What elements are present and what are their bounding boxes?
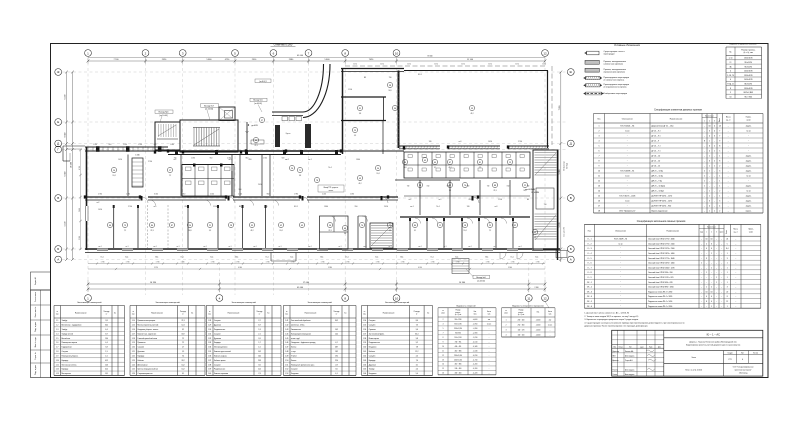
svg-text:1.45: 1.45 <box>285 338 288 340</box>
svg-text:ВК: ВК <box>527 199 529 201</box>
svg-text:–: – <box>716 296 717 298</box>
elevator shaft above stair <box>219 107 235 121</box>
svg-text:5 840: 5 840 <box>324 59 330 61</box>
svg-text:–1,530: –1,530 <box>473 350 478 352</box>
svg-text:5: 5 <box>727 243 728 245</box>
svg-text:–: – <box>701 267 702 269</box>
svg-text:41,2: 41,2 <box>448 167 451 169</box>
svg-text:из керамического кирпича: из керамического кирпича <box>604 87 628 89</box>
svg-text:ОК – 4: ОК – 4 <box>587 296 592 298</box>
svg-text:1: 1 <box>727 277 728 279</box>
svg-text:Е: Е <box>57 120 59 124</box>
svg-text:1.39: 1.39 <box>208 369 211 371</box>
svg-text:1: 1 <box>727 263 728 265</box>
svg-text:Оконный блок ОП В2 1870 × 140: Оконный блок ОП В2 1870 × 1400 <box>648 252 675 255</box>
svg-text:1.32: 1.32 <box>208 338 211 340</box>
svg-text:Ведомость отверстий в перек: Ведомость отверстий в перекрытии <box>512 304 543 307</box>
svg-text:–: – <box>721 272 722 274</box>
svg-text:Кабинет: Кабинет <box>138 360 145 362</box>
svg-text:Ворота подъемные: Ворота подъемные <box>652 211 668 213</box>
svg-text:4: 4 <box>709 151 710 153</box>
svg-text:+3,000: +3,000 <box>536 324 541 326</box>
svg-text:Изм: Изм <box>613 346 616 348</box>
bottom dimension lines <box>88 283 545 285</box>
svg-text:4: 4 <box>599 141 600 143</box>
svg-text:Корректировка проектно-сметной: Корректировка проектно-сметной документа… <box>686 344 741 347</box>
svg-text:–: – <box>721 296 722 298</box>
svg-text:1.22: 1.22 <box>132 355 135 357</box>
grid bubbles left <box>55 69 62 76</box>
svg-text:–: – <box>714 186 715 188</box>
svg-text:ап 1: ап 1 <box>444 246 447 248</box>
svg-text:1.35: 1.35 <box>208 351 211 353</box>
svg-text:3,0: 3,0 <box>335 369 337 371</box>
svg-text:1.10: 1.10 <box>56 360 59 362</box>
svg-text:1 200: 1 200 <box>238 194 242 196</box>
svg-text:14: 14 <box>719 126 721 128</box>
svg-text:Взам. инв. №: Взам. инв. № <box>34 307 37 318</box>
svg-text:4: 4 <box>730 71 731 73</box>
svg-text:Лист: Лист <box>741 353 745 355</box>
svg-text:Б-1: Б-1 <box>536 257 539 259</box>
svg-text:1.42: 1.42 <box>285 325 288 327</box>
svg-text:1 770: 1 770 <box>211 262 215 264</box>
svg-text:810: 810 <box>427 186 430 188</box>
svg-text:1.36: 1.36 <box>208 355 211 357</box>
svg-text:1. Данный лист читать совместн: 1. Данный лист читать совместно с АС – 1… <box>584 312 629 315</box>
svg-text:–: – <box>735 243 736 245</box>
legend rows <box>587 51 600 55</box>
svg-text:2 060: 2 060 <box>227 157 231 159</box>
svg-text:Санузел: Санузел <box>369 355 376 357</box>
svg-text:1 840: 1 840 <box>324 206 328 208</box>
svg-text:3,8: 3,8 <box>534 237 536 239</box>
svg-text:Комната для занятий: Комната для занятий <box>214 350 231 353</box>
svg-text:3,6: 3,6 <box>258 364 260 366</box>
svg-text:8 540: 8 540 <box>65 133 67 138</box>
svg-text:1.40: 1.40 <box>208 373 211 375</box>
svg-text:4: 4 <box>714 126 715 128</box>
left attachment stamp <box>31 290 51 378</box>
svg-text:Оконный блок ОП В2 690 × 870: Оконный блок ОП В2 690 × 870 <box>648 281 673 284</box>
svg-text:–: – <box>704 126 705 128</box>
svg-text:1.28: 1.28 <box>208 320 211 322</box>
svg-text:1: 1 <box>714 151 715 153</box>
svg-text:9,6: 9,6 <box>416 329 418 331</box>
svg-text:+1,710: +1,710 <box>473 359 478 361</box>
svg-text:Ведомость отверстий: Ведомость отверстий <box>457 304 476 307</box>
svg-text:ДГ 21 – 7 п: ДГ 21 – 7 п <box>652 151 661 153</box>
svg-text:1010×2070: 1010×2070 <box>744 78 753 81</box>
svg-text:1: 1 <box>727 272 728 274</box>
svg-text:Размер проема,: Размер проема, <box>741 49 756 51</box>
svg-text:ап 1: ап 1 <box>389 246 392 248</box>
vestibule west wall <box>246 122 248 151</box>
svg-text:3: 3 <box>706 258 707 260</box>
svg-text:1 490: 1 490 <box>126 194 130 196</box>
svg-text:нов: нов <box>488 319 491 321</box>
svg-text:1: 1 <box>706 287 707 289</box>
svg-text:1.8: 1.8 <box>56 351 58 353</box>
svg-text:2,6: 2,6 <box>258 338 260 340</box>
svg-text:отопл.: отопл. <box>329 190 334 192</box>
svg-text:5 200: 5 200 <box>79 236 81 240</box>
svg-text:–: – <box>704 196 705 198</box>
svg-text:10: 10 <box>442 346 444 348</box>
svg-text:Б-1: Б-1 <box>126 257 129 259</box>
svg-text:+3,000: +3,000 <box>536 334 541 336</box>
svg-text:закупк.: закупк. <box>746 166 752 168</box>
svg-text:7,2: 7,2 <box>489 230 491 232</box>
svg-text:1: 1 <box>719 196 720 198</box>
svg-text:2: 2 <box>714 161 715 163</box>
svg-text:17: 17 <box>598 206 600 208</box>
svg-text:–: – <box>728 171 729 173</box>
svg-text:–: – <box>716 248 717 250</box>
svg-text:В-1: В-1 <box>236 257 239 259</box>
svg-text:–: – <box>701 282 702 284</box>
svg-text:–: – <box>716 301 717 303</box>
svg-text:1: 1 <box>727 282 728 284</box>
svg-text:Ю – 1 – АС: Ю – 1 – АС <box>707 332 721 336</box>
svg-text:1 770: 1 770 <box>291 262 295 264</box>
svg-text:Площадь: Площадь <box>256 311 262 313</box>
svg-text:1.56: 1.56 <box>363 329 366 331</box>
svg-text:Холлы: Холлы <box>291 360 297 362</box>
svg-text:–: – <box>706 267 707 269</box>
svg-text:–: – <box>728 191 729 193</box>
svg-text:–: – <box>701 296 702 298</box>
svg-text:–: – <box>701 258 702 260</box>
svg-text:7 ПД, 11: 7 ПД, 11 <box>727 84 734 86</box>
svg-text:8,6: 8,6 <box>416 320 418 322</box>
svg-text:4: 4 <box>706 296 707 298</box>
svg-text:1.19: 1.19 <box>132 342 135 344</box>
svg-text:1 770: 1 770 <box>401 262 405 264</box>
SE stairwell column <box>533 150 558 250</box>
svg-text:Приемная: Приемная <box>138 342 146 344</box>
svg-text:18,2: 18,2 <box>335 351 338 353</box>
svg-text:11: 11 <box>598 176 600 178</box>
svg-text:О-1: О-1 <box>265 257 268 259</box>
svg-text:ОК – 5: ОК – 5 <box>587 301 592 303</box>
svg-text:Лаборатория помещения: Лаборатория помещения <box>291 333 311 335</box>
svg-text:41,2: 41,2 <box>105 369 108 371</box>
svg-text:–: – <box>721 263 722 265</box>
svg-text:ДГ 24 – 15: ДГ 24 – 15 <box>652 166 661 168</box>
svg-text:Подп. и дата: Подп. и дата <box>35 322 37 332</box>
svg-text:1.12: 1.12 <box>56 369 59 371</box>
svg-text:6 200: 6 200 <box>65 95 67 100</box>
svg-text:19,2: 19,2 <box>335 355 338 357</box>
svg-text:1 770: 1 770 <box>431 262 435 264</box>
vestibule north walls <box>272 111 303 113</box>
svg-text:Кабинет: Кабинет <box>369 351 376 353</box>
svg-text:–: – <box>735 287 736 289</box>
svg-text:15,3: 15,3 <box>105 364 108 366</box>
svg-text:–: – <box>735 248 736 250</box>
svg-text:810: 810 <box>185 206 188 208</box>
svg-text:закупк.: закупк. <box>746 196 752 198</box>
svg-text:ДН 21 – 9 Щ: ДН 21 – 9 Щ <box>652 181 663 183</box>
svg-text:1.14: 1.14 <box>132 320 135 322</box>
svg-text:Душевая: Душевая <box>369 364 376 366</box>
svg-text:1.47: 1.47 <box>285 347 288 349</box>
svg-text:Экспликация помещений: Экспликация помещений <box>77 301 102 304</box>
svg-text:9: 9 <box>730 92 731 94</box>
svg-text:О – 1: О – 1 <box>587 239 591 241</box>
svg-text:30,2: 30,2 <box>335 320 338 322</box>
svg-text:1.13: 1.13 <box>56 373 59 375</box>
svg-text:Подоконная плита ПК 4 × 2090: Подоконная плита ПК 4 × 2090 <box>648 290 672 293</box>
svg-text:–: – <box>701 291 702 293</box>
partitions north band west wing <box>127 155 129 197</box>
svg-text:Сушилка: Сушилка <box>369 329 376 331</box>
svg-text:3: 3 <box>714 136 715 138</box>
svg-text:–: – <box>706 263 707 265</box>
svg-text:–: – <box>704 166 705 168</box>
svg-text:ДН 21 – 10 Щ(л): ДН 21 – 10 Щ(л) <box>652 186 666 188</box>
svg-text:+0,000: +0,000 <box>473 319 478 321</box>
svg-text:8: 8 <box>704 141 705 143</box>
svg-text:4: 4 <box>714 131 715 133</box>
svg-text:2: 2 <box>704 171 705 173</box>
svg-text:810×2070: 810×2070 <box>744 83 752 86</box>
svg-text:–: – <box>735 301 736 303</box>
svg-text:–: – <box>728 136 729 138</box>
svg-text:2 760: 2 760 <box>148 161 152 163</box>
svg-text:1: 1 <box>727 306 728 308</box>
svg-text:мп 1: мп 1 <box>418 246 421 248</box>
svg-text:13: 13 <box>598 186 600 188</box>
svg-text:из силикатного кирпича: из силикатного кирпича <box>604 79 626 81</box>
svg-text:ДГ 21 – 10: ДГ 21 – 10 <box>652 161 661 163</box>
svg-text:–: – <box>701 287 702 289</box>
svg-text:–: – <box>735 277 736 279</box>
svg-text:1.6: 1.6 <box>56 342 58 344</box>
svg-text:18 040: 18 040 <box>71 162 73 168</box>
svg-text:по мес: по мес <box>548 324 553 326</box>
svg-text:2 450: 2 450 <box>123 144 127 146</box>
svg-text:[за 40:00]: [за 40:00] <box>254 103 262 105</box>
svg-text:заказн.: заказн. <box>746 211 752 213</box>
svg-text:Площадь: Площадь <box>333 311 339 313</box>
svg-text:1.11: 1.11 <box>56 364 59 366</box>
svg-text:Кабинет врача: Кабинет врача <box>214 360 226 362</box>
svg-text:Комната практики: Комната практики <box>214 373 228 375</box>
svg-text:5 860: 5 860 <box>206 59 212 61</box>
svg-text:–: – <box>714 201 715 203</box>
svg-text:–: – <box>701 272 702 274</box>
svg-text:–: – <box>704 146 705 148</box>
svg-text:2 400: 2 400 <box>79 208 81 212</box>
svg-text:Дверной блок ДГ 21 – 13м: Дверной блок ДГ 21 – 13м <box>652 125 675 128</box>
svg-text:Н.контр: Н.контр <box>613 369 619 371</box>
svg-text:керамическим кирпичом: керамическим кирпичом <box>604 72 626 74</box>
svg-text:Оконный блок ОП В2 890 × 1810: Оконный блок ОП В2 890 × 1810 <box>648 286 674 289</box>
svg-text:730: 730 <box>527 186 530 188</box>
svg-text:–: – <box>716 263 717 265</box>
svg-text:14: 14 <box>442 364 444 366</box>
svg-text:–: – <box>711 258 712 260</box>
svg-text:ООО "Специализированная: ООО "Специализированная <box>733 366 754 368</box>
svg-text:1 350: 1 350 <box>263 157 267 159</box>
svg-text:1.37: 1.37 <box>208 360 211 362</box>
svg-text:1 490: 1 490 <box>350 194 354 196</box>
svg-text:–: – <box>716 243 717 245</box>
svg-text:–: – <box>704 136 705 138</box>
west wall <box>86 147 88 250</box>
svg-text:–: – <box>735 253 736 255</box>
svg-text:1.34: 1.34 <box>208 347 211 349</box>
svg-text:низа: низа <box>474 313 477 315</box>
svg-text:2: 2 <box>706 243 707 245</box>
svg-text:Раздевальная: Раздевальная <box>369 342 380 344</box>
svg-text:21,3: 21,3 <box>254 145 257 147</box>
svg-text:закупк.: закупк. <box>746 186 752 188</box>
svg-text:4. Существующие санитарно-техн: 4. Существующие санитарно-технические пр… <box>584 322 684 324</box>
svg-text:1 490: 1 490 <box>98 209 102 211</box>
big hall <box>404 70 548 72</box>
svg-text:Д: Д <box>57 142 59 146</box>
svg-text:1: 1 <box>709 166 710 168</box>
svg-text:кровл: кровл <box>720 231 724 233</box>
svg-text:О-1: О-1 <box>430 257 433 259</box>
svg-text:Масса: Масса <box>726 117 731 119</box>
svg-text:–: – <box>728 151 729 153</box>
svg-text:1: 1 <box>709 156 710 158</box>
svg-text:–: – <box>706 253 707 255</box>
svg-text:10: 10 <box>395 296 399 300</box>
svg-text:10: 10 <box>711 291 713 293</box>
svg-text:94 ПОД: 94 ПОД <box>567 162 569 169</box>
svg-text:9,1: 9,1 <box>182 373 184 375</box>
svg-text:Наименование: Наименование <box>228 313 240 315</box>
svg-text:Соглас: Соглас <box>613 374 618 376</box>
svg-text:1.48: 1.48 <box>285 351 288 353</box>
svg-text:1.1: 1.1 <box>56 320 58 322</box>
svg-text:–: – <box>714 156 715 158</box>
east middle walls <box>395 179 460 181</box>
svg-text:Вестибюль: Вестибюль <box>62 338 71 340</box>
svg-text:–: – <box>701 306 702 308</box>
svg-text:Душевая: Душевая <box>138 351 145 353</box>
svg-text:Ведомость дверных проемов: Ведомость дверных проемов <box>729 44 756 46</box>
svg-text:1: 1 <box>711 306 712 308</box>
svg-text:–: – <box>706 277 707 279</box>
svg-text:Помещение уборочн.: Помещение уборочн. <box>62 355 79 357</box>
vertical dim chain inside west <box>80 150 82 250</box>
svg-text:О – 2: О – 2 <box>587 243 591 245</box>
svg-text:О – 6: О – 6 <box>587 263 591 265</box>
svg-text:740: 740 <box>429 141 432 143</box>
svg-text:730: 730 <box>487 186 490 188</box>
svg-text:–: – <box>728 176 729 178</box>
east middle band partitions <box>419 180 421 215</box>
svg-text:–: – <box>716 258 717 260</box>
svg-text:–: – <box>735 291 736 293</box>
small label box top <box>255 79 271 83</box>
svg-text:7 740: 7 740 <box>113 59 119 61</box>
svg-text:3,2: 3,2 <box>182 329 184 331</box>
svg-text:Оконный блок ОП В2 1170 × 870: Оконный блок ОП В2 1170 × 870 <box>648 276 673 279</box>
svg-text:1 390: 1 390 <box>93 144 97 146</box>
svg-text:Подоконная плита ПК 4 × 1490: Подоконная плита ПК 4 × 1490 <box>648 300 672 303</box>
svg-text:1: 1 <box>709 211 710 213</box>
svg-text:отверст.,: отверст., <box>518 312 524 314</box>
svg-text:ДСН ЮТ ПР 2070 – 950: ДСН ЮТ ПР 2070 – 950 <box>652 206 672 208</box>
svg-text:10,2: 10,2 <box>258 351 261 353</box>
svg-text:10: 10 <box>395 51 399 55</box>
svg-text:ВК: ВК <box>239 206 241 208</box>
svg-text:21,3: 21,3 <box>493 190 496 192</box>
svg-text:1.62: 1.62 <box>363 355 366 357</box>
svg-text:1.57: 1.57 <box>363 333 366 335</box>
svg-text:5: 5 <box>719 151 720 153</box>
svg-text:ГОСТ 14624 – 84: ГОСТ 14624 – 84 <box>620 126 634 128</box>
svg-text:мс-1: мс-1 <box>308 159 312 161</box>
svg-text:1.43: 1.43 <box>285 329 288 331</box>
svg-text:–: – <box>721 287 722 289</box>
svg-text:ед., кг: ед., кг <box>726 120 731 122</box>
svg-text:Условные обозначения: Условные обозначения <box>614 44 641 47</box>
svg-text:1: 1 <box>704 181 705 183</box>
svg-text:ОК – 2: ОК – 2 <box>587 287 592 289</box>
black door jambs <box>167 149 169 152</box>
svg-text:–: – <box>716 287 717 289</box>
svg-text:Раздевальная: Раздевальная <box>214 369 225 371</box>
svg-text:9,1: 9,1 <box>414 230 416 232</box>
svg-text:2 450: 2 450 <box>258 184 262 186</box>
svg-text:Обозначение: Обозначение <box>622 119 633 121</box>
svg-text:1.20: 1.20 <box>132 347 135 349</box>
svg-text:1.41: 1.41 <box>285 320 288 322</box>
svg-text:4: 4 <box>711 248 712 250</box>
svg-text:1: 1 <box>711 267 712 269</box>
svg-text:7,8: 7,8 <box>416 347 418 349</box>
svg-text:Ж: Ж <box>569 70 572 74</box>
svg-text:мп 1: мп 1 <box>98 246 101 248</box>
west entrance porch <box>63 145 85 147</box>
svg-text:7: 7 <box>719 131 720 133</box>
svg-text:3: 3 <box>714 121 715 123</box>
svg-text:мс-2: мс-2 <box>285 159 289 161</box>
svg-text:–: – <box>735 306 736 308</box>
svg-text:810: 810 <box>109 144 112 146</box>
svg-text:Наименование: Наименование <box>75 313 87 315</box>
svg-text:–: – <box>709 186 710 188</box>
svg-text:Пн.1: Пн.1 <box>436 206 440 208</box>
middle stair col8-10 <box>370 223 393 248</box>
svg-text:3,8: 3,8 <box>344 233 346 235</box>
svg-text:Поз.: Поз. <box>597 119 601 121</box>
svg-text:ДН 21 – 13 Щ: ДН 21 – 13 Щ <box>652 171 664 173</box>
svg-text:3,8: 3,8 <box>299 175 301 177</box>
svg-text:Мастерская: Мастерская <box>62 373 71 375</box>
svg-text:5,3: 5,3 <box>258 329 260 331</box>
svg-text:41 040: 41 040 <box>297 287 304 289</box>
svg-text:9: 9 <box>719 141 720 143</box>
svg-text:6 090: 6 090 <box>238 267 242 269</box>
svg-text:1 680: 1 680 <box>170 144 174 146</box>
svg-text:–: – <box>728 146 729 148</box>
svg-text:–: – <box>701 301 702 303</box>
svg-text:16: 16 <box>598 201 600 203</box>
grid bubbles right <box>567 69 574 76</box>
svg-text:ИС-1: ИС-1 <box>294 206 298 208</box>
svg-text:закупк.: закупк. <box>746 126 752 128</box>
svg-text:2 090: 2 090 <box>535 287 539 289</box>
